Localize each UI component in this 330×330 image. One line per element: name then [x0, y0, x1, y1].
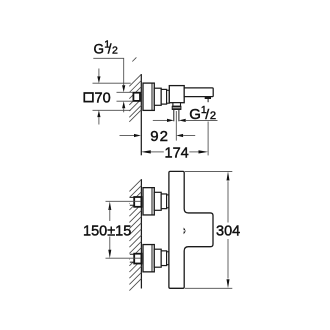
- svg-text:70: 70: [95, 90, 111, 106]
- top inlet cylinder 2: [161, 194, 166, 209]
- neck (top view): [167, 90, 170, 103]
- svg-text:150±15: 150±15: [83, 223, 131, 239]
- svg-text:G: G: [94, 41, 105, 56]
- shower outlet nut band (heavy edges): [172, 106, 181, 109]
- bottom inlet escutcheon: [143, 245, 154, 272]
- wall hatch (bottom view): [129, 179, 141, 290]
- svg-text:174: 174: [165, 145, 189, 161]
- main body bar + centre housing protrusion (bottom view, one outline): [169, 171, 213, 288]
- G 1/2 top arrow down: [122, 85, 125, 92]
- top inlet (bottom view): thread stub behind wall: [130, 197, 135, 205]
- wall face line (bottom view): [140, 179, 142, 288]
- dim 92: left tail + outside arrow pointing right: [120, 135, 135, 137]
- bottom inlet union nut: [134, 254, 141, 264]
- valve body (top view): [169, 86, 184, 103]
- svg-text:304: 304: [216, 224, 240, 240]
- label square-70: [84, 93, 93, 102]
- aerator at spout end: [205, 97, 211, 99]
- shower outlet neck below valve body: [173, 103, 181, 107]
- dim 150±15: vertical line + inside arrows: [108, 202, 111, 211]
- dim 174 right extension line: [207, 122, 209, 156]
- cylinder 1 (top view): [154, 88, 161, 105]
- cylinder 2 (top view): [161, 89, 166, 104]
- svg-text:2: 2: [112, 44, 118, 56]
- aerator drip line: [207, 99, 209, 103]
- escutcheon front-face inner line: [151, 83, 153, 110]
- G 1/2 bottom bracket: right arrow pointing left + leader under text: [179, 119, 186, 122]
- G 1/2 top lower arrow up with tail: [122, 101, 125, 108]
- shower outlet thread stub: [173, 110, 175, 121]
- dim 304: vertical line + inside arrows: [227, 171, 230, 180]
- wall hatch (top view): [129, 57, 141, 121]
- G 1/2 top leader line: [93, 58, 123, 85]
- svg-text:/: /: [205, 106, 209, 122]
- svg-text:92: 92: [150, 128, 169, 145]
- dim 70: top extension line: [93, 82, 131, 84]
- dim 92: right outside arrow pointing left + tail: [176, 134, 183, 137]
- nut thread extension lines (for G1/2 arrows): [117, 91, 134, 93]
- bottom inlet cylinder 2: [161, 251, 166, 266]
- stub centre extension line: [175, 111, 177, 141]
- top inlet neck: [167, 195, 169, 208]
- wall face line (top view): [140, 74, 142, 155]
- bottom inlet (bottom view): thread stub behind wall: [130, 254, 135, 262]
- G 1/2 bottom label: [189, 104, 216, 123]
- bottom inlet cylinder 1: [154, 249, 161, 267]
- top inlet cylinder 1: [154, 192, 161, 210]
- union nut G1/2 behind wall (top view): [133, 93, 141, 101]
- escutcheon square 70 (top view): [143, 83, 154, 110]
- handle mark (small half-lens): [184, 228, 186, 235]
- G 1/2 top label: [94, 39, 119, 57]
- spout (top view): [184, 88, 213, 97]
- G 1/2 bottom bracket: left arrow pointing right: [153, 119, 167, 121]
- dim 174: line with inside arrows: [141, 150, 151, 153]
- top inlet union nut: [134, 197, 141, 207]
- bottom inlet neck: [167, 252, 169, 265]
- dim 150 bottom extension line: [106, 257, 141, 259]
- dim 70: vertical line + outside arrows: [98, 69, 100, 77]
- top inlet escutcheon: [143, 188, 154, 215]
- dim 70: bottom extension line: [93, 109, 131, 111]
- dim 304: extension lines: [185, 170, 232, 172]
- dim 150 top extension line: [106, 200, 141, 202]
